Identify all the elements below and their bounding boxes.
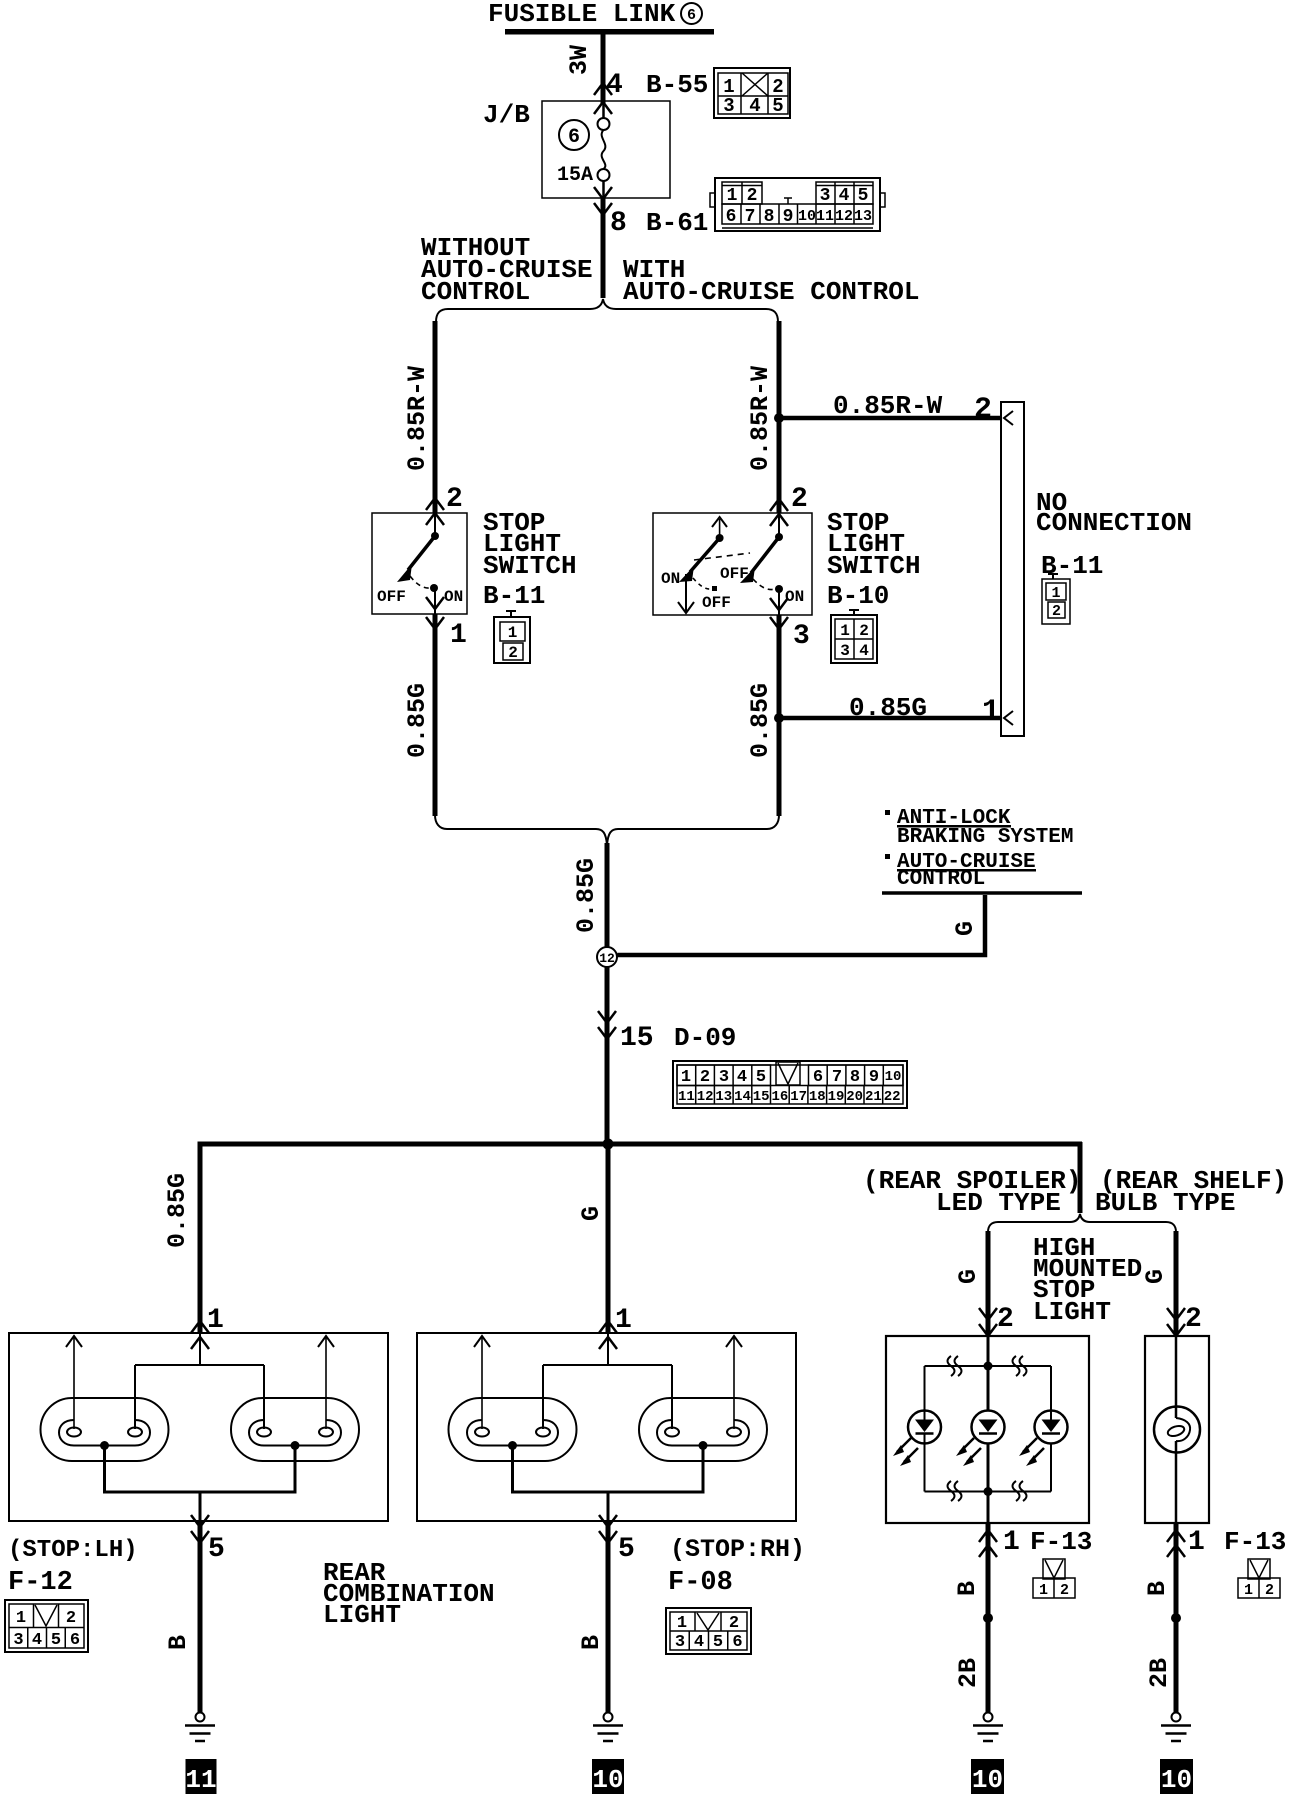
B-10 pin 3 arrow	[770, 598, 788, 629]
svg-text:2: 2	[997, 1304, 1014, 1335]
svg-text:B: B	[577, 1635, 606, 1650]
lamp LH internal wiring	[66, 1333, 334, 1429]
node on bus at center wire	[603, 1139, 614, 1150]
svg-text:4: 4	[32, 1631, 42, 1650]
svg-text:5: 5	[858, 186, 869, 206]
svg-text:8: 8	[610, 208, 627, 239]
svg-text:11: 11	[816, 208, 834, 225]
ground lamp LH	[185, 1713, 215, 1742]
svg-text:6: 6	[568, 126, 580, 149]
pin 1 arrow lamp RH	[599, 1321, 617, 1349]
connector icon B-10	[831, 610, 877, 663]
svg-text:2: 2	[974, 393, 992, 427]
label REAR SPOILER LED TYPE	[863, 1166, 1081, 1218]
svg-text:ON: ON	[661, 570, 680, 588]
svg-text:2: 2	[1060, 1582, 1069, 1599]
page reference 10 LED	[971, 1759, 1004, 1794]
svg-text:1: 1	[207, 1305, 224, 1336]
brace split top	[436, 299, 778, 322]
ABS feed wire	[618, 895, 986, 955]
label STOP:LH F-12	[8, 1537, 138, 1598]
svg-text:CONTROL: CONTROL	[897, 868, 985, 891]
svg-text:AUTO-CRUISE CONTROL: AUTO-CRUISE CONTROL	[623, 277, 919, 307]
svg-text:2: 2	[1185, 1304, 1202, 1335]
brace split high mounted stop light	[988, 1214, 1176, 1232]
svg-text:4: 4	[694, 1633, 704, 1652]
svg-text:1: 1	[1188, 1527, 1205, 1558]
wire to LED stop light	[986, 1231, 991, 1336]
svg-text:13: 13	[715, 1089, 732, 1105]
connector icon B-11	[494, 611, 530, 663]
svg-text:10: 10	[1161, 1765, 1192, 1794]
pin 15 arrow	[598, 1011, 616, 1039]
brace merge bottom	[435, 815, 779, 845]
LED 1	[893, 1411, 941, 1467]
ground bulb	[1161, 1713, 1191, 1742]
wire LED to ground	[986, 1523, 991, 1713]
rear combination light RH box	[417, 1333, 796, 1521]
B-10 pin 2 arrow	[770, 499, 788, 526]
LED array wiring top rail	[925, 1336, 1052, 1420]
svg-text:0.85G: 0.85G	[849, 693, 927, 723]
label STOP:RH F-08	[668, 1535, 805, 1598]
LED 2	[956, 1411, 1005, 1467]
svg-text:15: 15	[620, 1023, 654, 1054]
pin 5 arrow lamp LH	[191, 1515, 209, 1543]
B-11 pin 1 arrow	[426, 597, 444, 629]
svg-text:4: 4	[737, 1068, 747, 1087]
node branch to no-connection pin 1	[774, 713, 784, 723]
svg-text:4: 4	[749, 95, 760, 117]
svg-text:0.85G: 0.85G	[746, 683, 775, 758]
pin 2 arrow bulb	[1167, 1308, 1185, 1336]
svg-text:LED TYPE: LED TYPE	[936, 1188, 1061, 1218]
svg-text:5: 5	[618, 1534, 635, 1565]
svg-text:ON: ON	[444, 588, 463, 606]
svg-text:2: 2	[791, 484, 808, 515]
svg-text:2: 2	[1052, 603, 1061, 620]
rear combination light LH box	[9, 1333, 388, 1521]
fusible link bus bar	[505, 29, 714, 35]
svg-text:5: 5	[51, 1631, 61, 1650]
svg-text:ON: ON	[785, 588, 804, 606]
wire from fusible link to J/B	[601, 34, 606, 104]
svg-text:G: G	[1141, 1269, 1170, 1284]
svg-text:1: 1	[615, 1305, 632, 1336]
svg-text:0.85G: 0.85G	[163, 1173, 192, 1248]
svg-text:2: 2	[66, 1609, 76, 1628]
wire from brace to junction 12	[605, 843, 610, 947]
svg-text:12: 12	[835, 208, 853, 225]
connector icon B-55	[714, 68, 790, 118]
svg-text:1: 1	[840, 622, 850, 640]
svg-text:J/B: J/B	[483, 100, 530, 130]
svg-text:0.85R-W: 0.85R-W	[403, 366, 432, 471]
connector icon D-09	[673, 1061, 907, 1108]
bulb RH stop/tail 1	[449, 1398, 577, 1461]
svg-text:OFF: OFF	[377, 588, 406, 606]
pin 1 arrow lamp LH	[191, 1321, 209, 1349]
wire junction 12 to D-09	[605, 967, 610, 1146]
svg-text:5: 5	[772, 95, 783, 117]
splice node bulb ground wire	[1171, 1613, 1181, 1623]
fuse 6 circled label	[559, 120, 589, 150]
svg-text:OFF: OFF	[702, 594, 731, 612]
svg-text:22: 22	[884, 1089, 901, 1105]
svg-text:3: 3	[723, 95, 734, 117]
svg-text:LIGHT: LIGHT	[323, 1600, 401, 1630]
wire to no-connection pin 1	[779, 716, 1001, 721]
svg-text:F-12: F-12	[8, 1568, 73, 1598]
svg-text:G: G	[951, 921, 980, 936]
svg-text:1: 1	[681, 1068, 691, 1087]
svg-text:17: 17	[790, 1089, 807, 1105]
svg-text:12: 12	[697, 1089, 714, 1105]
B-10 switch pole A	[720, 513, 804, 615]
svg-text:F-13: F-13	[1030, 1527, 1092, 1557]
svg-text:6: 6	[687, 7, 696, 24]
bulb RH stop/tail 2	[639, 1398, 767, 1461]
svg-text:2B: 2B	[954, 1658, 983, 1688]
svg-text:3W: 3W	[565, 45, 594, 75]
bulb high mounted stop light box	[1145, 1336, 1209, 1523]
svg-text:2: 2	[747, 186, 758, 206]
svg-text:9: 9	[869, 1068, 879, 1087]
svg-text:10: 10	[798, 208, 816, 225]
fuse 15A symbol	[557, 118, 610, 187]
svg-text:15A: 15A	[557, 164, 593, 187]
svg-text:13: 13	[854, 208, 872, 225]
svg-text:18: 18	[809, 1089, 826, 1105]
svg-text:5: 5	[208, 1534, 225, 1565]
section label WITHOUT AUTO-CRUISE CONTROL	[421, 233, 593, 307]
wire from B-11 to brace	[433, 614, 438, 816]
svg-text:6: 6	[70, 1631, 80, 1650]
svg-text:5: 5	[713, 1633, 723, 1652]
svg-text:4: 4	[839, 186, 850, 206]
svg-text:0.85G: 0.85G	[572, 858, 601, 933]
svg-text:1: 1	[16, 1609, 26, 1628]
svg-text:4: 4	[606, 70, 623, 101]
svg-text:10: 10	[972, 1765, 1003, 1794]
svg-text:CONNECTION: CONNECTION	[1036, 508, 1192, 538]
svg-text:F-13: F-13	[1224, 1527, 1286, 1557]
svg-text:1: 1	[508, 624, 518, 642]
B-11 switch contacts	[377, 513, 463, 614]
svg-text:1: 1	[1244, 1582, 1253, 1599]
svg-text:1: 1	[1003, 1527, 1020, 1558]
pin 2 arrow LED	[979, 1308, 997, 1336]
wire from fuse to pin 8	[602, 181, 605, 197]
svg-text:11: 11	[185, 1765, 216, 1794]
svg-text:2: 2	[700, 1068, 710, 1087]
lamp RH internal wiring	[474, 1333, 742, 1429]
connector icon F-13 bulb	[1238, 1559, 1280, 1599]
svg-text:BULB TYPE: BULB TYPE	[1095, 1188, 1235, 1218]
wire bulb to ground	[1174, 1523, 1179, 1713]
B-10 switch label	[827, 508, 921, 611]
bulb LH stop/tail 1	[41, 1398, 169, 1461]
svg-text:B: B	[1143, 1581, 1172, 1596]
ABS and auto-cruise note	[885, 807, 1073, 891]
svg-text:3: 3	[675, 1633, 685, 1652]
svg-text:3: 3	[13, 1631, 23, 1650]
splice node LED ground wire	[983, 1613, 993, 1623]
wire to bulb stop light	[1174, 1231, 1179, 1336]
page reference 11	[185, 1759, 216, 1794]
stop light switch B-11 box	[372, 513, 467, 614]
connector icon B-61	[710, 178, 885, 231]
label REAR SHELF BULB TYPE	[1095, 1166, 1287, 1218]
svg-text:7: 7	[745, 207, 756, 227]
svg-text:8: 8	[764, 207, 775, 227]
connector icon F-12	[5, 1600, 88, 1652]
wire from B-10 to brace	[777, 615, 782, 816]
svg-text:14: 14	[734, 1089, 751, 1105]
pin 1 arrow bulb	[1167, 1530, 1185, 1557]
svg-text:2: 2	[446, 484, 463, 515]
svg-text:6: 6	[813, 1068, 823, 1087]
svg-text:1: 1	[1039, 1582, 1048, 1599]
svg-text:2: 2	[1265, 1582, 1274, 1599]
junction block J/B	[483, 100, 670, 198]
svg-text:1: 1	[677, 1614, 687, 1633]
label HIGH MOUNTED STOP LIGHT	[1033, 1233, 1142, 1327]
svg-text:1: 1	[1051, 585, 1060, 602]
svg-text:G: G	[954, 1269, 983, 1284]
svg-text:1: 1	[982, 695, 1000, 729]
svg-text:2: 2	[859, 622, 869, 640]
label REAR COMBINATION LIGHT	[323, 1558, 495, 1630]
svg-text:OFF: OFF	[720, 565, 749, 583]
svg-text:5: 5	[756, 1068, 766, 1087]
svg-text:1: 1	[727, 186, 738, 206]
svg-text:15: 15	[753, 1089, 770, 1105]
svg-text:8: 8	[850, 1068, 860, 1087]
svg-text:10: 10	[885, 1069, 902, 1085]
svg-text:SWITCH: SWITCH	[827, 551, 921, 581]
no connection label	[1036, 488, 1192, 581]
svg-text:12: 12	[599, 951, 615, 966]
ground LED	[973, 1713, 1003, 1742]
section label WITH AUTO-CRUISE CONTROL	[623, 255, 919, 307]
svg-text:6: 6	[732, 1633, 742, 1652]
svg-text:B-55: B-55	[646, 70, 708, 100]
page reference 10 bulb	[1160, 1759, 1193, 1794]
svg-text:3: 3	[719, 1068, 729, 1087]
lamp LH common return wiring	[105, 1446, 296, 1522]
svg-text:LIGHT: LIGHT	[1033, 1297, 1111, 1327]
svg-text:F-08: F-08	[668, 1568, 733, 1598]
LED high mounted stop light box	[886, 1336, 1089, 1523]
svg-text:BRAKING SYSTEM: BRAKING SYSTEM	[897, 826, 1073, 849]
svg-text:0.85R-W: 0.85R-W	[833, 391, 943, 421]
svg-text:0.85R-W: 0.85R-W	[746, 366, 775, 471]
svg-text:7: 7	[832, 1068, 842, 1087]
title FUSIBLE LINK 6	[488, 0, 702, 29]
wire right branch to B-10	[777, 321, 782, 513]
connector icon F-08	[666, 1608, 751, 1654]
svg-text:3: 3	[840, 642, 850, 660]
svg-text:(STOP:RH): (STOP:RH)	[670, 1535, 805, 1564]
svg-text:SWITCH: SWITCH	[483, 551, 577, 581]
svg-text:19: 19	[828, 1089, 845, 1105]
connector icon F-13 LED	[1033, 1559, 1075, 1599]
svg-text:1: 1	[450, 620, 467, 651]
wire lamp RH to ground	[606, 1521, 611, 1713]
svg-text:11: 11	[678, 1089, 695, 1105]
svg-text:B-11: B-11	[1041, 551, 1103, 581]
pin 4 arrow	[594, 83, 612, 114]
svg-text:10: 10	[592, 1765, 623, 1794]
no connection block	[1001, 402, 1024, 736]
svg-text:9: 9	[783, 207, 794, 227]
svg-text:20: 20	[846, 1089, 863, 1105]
svg-text:B-61: B-61	[646, 208, 708, 238]
wire drop to rear combination LH	[198, 1142, 203, 1333]
svg-text:B: B	[164, 1635, 193, 1650]
svg-text:B-11: B-11	[483, 581, 545, 611]
svg-text:B-10: B-10	[827, 581, 889, 611]
ABS feed bus line	[882, 891, 1082, 895]
connector icon B-11 no connection	[1042, 574, 1070, 624]
pin 5 arrow lamp RH	[599, 1515, 617, 1543]
stop light switch B-10 box	[653, 513, 812, 615]
lamp RH common return wiring	[513, 1446, 704, 1522]
wire drop to high mounted stop light	[1078, 1142, 1083, 1213]
svg-text:D-09: D-09	[674, 1023, 736, 1053]
wire to no-connection pin 2	[779, 416, 1001, 421]
svg-text:3: 3	[820, 186, 831, 206]
svg-text:2: 2	[508, 644, 518, 662]
svg-text:4: 4	[859, 642, 869, 660]
junction circle 12	[597, 947, 617, 967]
bulb stop light symbol	[1154, 1336, 1200, 1523]
ground lamp RH	[593, 1713, 623, 1742]
wire drop to rear combination RH	[606, 1146, 611, 1333]
B-10 switch pole B	[661, 517, 750, 613]
LED array wiring bottom rail	[925, 1443, 1052, 1523]
bulb LH stop/tail 2	[231, 1398, 359, 1461]
svg-text:2: 2	[729, 1614, 739, 1633]
pin 1 arrow LED	[979, 1530, 997, 1557]
svg-text:0.85G: 0.85G	[403, 683, 432, 758]
svg-text:FUSIBLE LINK: FUSIBLE LINK	[488, 0, 676, 29]
svg-text:3: 3	[793, 621, 810, 652]
svg-text:2B: 2B	[1145, 1658, 1174, 1688]
svg-text:16: 16	[771, 1089, 788, 1105]
main distribution bus	[198, 1142, 1083, 1147]
wire left branch to B-11	[433, 321, 438, 513]
svg-text:6: 6	[726, 207, 737, 227]
svg-text:B: B	[953, 1581, 982, 1596]
wire lamp LH to ground	[198, 1521, 203, 1713]
svg-text:G: G	[577, 1206, 606, 1221]
page reference 10 lamp RH	[592, 1759, 624, 1794]
svg-text:(STOP:LH): (STOP:LH)	[8, 1537, 138, 1564]
B-11 pin 2 arrow	[426, 498, 444, 525]
svg-text:21: 21	[865, 1089, 882, 1105]
B-11 switch label	[483, 508, 577, 611]
pin 8 arrow	[594, 187, 612, 215]
node branch to no-connection pin 2	[774, 413, 784, 423]
LED 3	[1019, 1411, 1068, 1467]
svg-text:CONTROL: CONTROL	[421, 277, 530, 307]
